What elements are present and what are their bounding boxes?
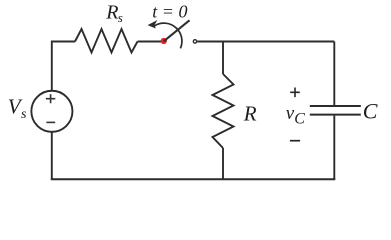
svg-text:C: C — [363, 98, 378, 123]
voltage source minus sign — [46, 121, 55, 123]
svg-text:C: C — [294, 111, 305, 128]
capacitor C top plate — [310, 105, 361, 107]
wire: source bottom lead — [51, 132, 53, 180]
resistor Rs (zigzag) — [75, 29, 138, 53]
switch pole node (red dot) — [161, 38, 167, 44]
wire: switch contact to top-right corner — [197, 41, 334, 43]
voltage source Vs (circle) — [31, 91, 72, 132]
wire: top-right corner down to capacitor top plate — [333, 42, 335, 106]
switch blade — [164, 20, 190, 41]
switch motion arrow (arc) — [155, 23, 182, 48]
capacitor polarity minus sign — [290, 140, 300, 142]
wire: capacitor bottom plate down to bottom-right corner — [333, 116, 335, 180]
capacitor polarity plus sign — [290, 88, 300, 98]
svg-text:R: R — [243, 101, 257, 125]
wire: Rs right lead to switch pole — [138, 41, 164, 43]
svg-text:s: s — [21, 107, 27, 122]
wire: R branch top lead — [222, 41, 224, 75]
wire: source top lead up and right to Rs left lead — [52, 42, 75, 92]
wire: bottom rail — [51, 178, 336, 180]
switch motion arrowhead — [148, 20, 158, 29]
capacitor C bottom plate — [310, 114, 361, 116]
svg-text:R: R — [105, 2, 118, 24]
wire: R branch bottom lead — [222, 148, 224, 179]
switch throw contact (open circle) — [193, 40, 196, 43]
voltage source plus sign — [46, 94, 55, 103]
resistor R (zigzag) — [213, 74, 234, 148]
svg-text:s: s — [118, 10, 123, 25]
svg-text:t = 0: t = 0 — [152, 2, 187, 22]
